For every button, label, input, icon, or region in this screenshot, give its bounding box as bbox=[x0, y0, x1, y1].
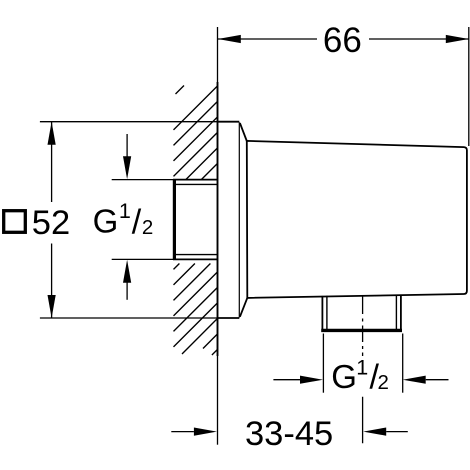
svg-text:33-45: 33-45 bbox=[245, 415, 333, 453]
outlet right outer bbox=[400, 295, 402, 332]
wall section hatch bbox=[174, 86, 218, 356]
outlet bottom edge bbox=[321, 329, 402, 332]
extension line right (66 dim right) bbox=[468, 27, 470, 146]
inlet thread connector top inner bbox=[176, 183, 218, 185]
svg-text:1: 1 bbox=[119, 199, 131, 223]
flange front face edge bbox=[238, 122, 240, 317]
outlet centerline bbox=[362, 296, 364, 443]
outlet left outer bbox=[321, 296, 323, 332]
extension line wall bottom (33-45 dim left) bbox=[217, 356, 219, 445]
inlet thread connector bottom inner bbox=[176, 254, 218, 256]
extension line wall top (66 dim left) bbox=[217, 27, 219, 82]
arrowhead 66 left bbox=[218, 35, 241, 43]
arrow to inlet top bbox=[126, 134, 128, 158]
body outline bbox=[247, 141, 467, 298]
flange outline bbox=[218, 122, 240, 318]
inlet thread extension bottom bbox=[112, 258, 173, 260]
33-45 dim arrow left bbox=[171, 431, 194, 433]
dimension line 52 vertical bbox=[51, 122, 53, 318]
svg-text:1: 1 bbox=[356, 356, 368, 380]
outlet right inner bbox=[395, 295, 397, 330]
svg-text:/: / bbox=[132, 204, 142, 242]
outlet dim arrow right bbox=[426, 379, 449, 381]
33-45 dim arrow right bbox=[386, 431, 408, 433]
inlet thread connector top outer bbox=[173, 179, 218, 181]
square symbol bbox=[4, 211, 26, 233]
outlet left inner bbox=[326, 296, 328, 330]
svg-text:G: G bbox=[331, 358, 357, 395]
extension line flange bottom (52 dim) bbox=[40, 317, 218, 319]
inlet thread connector end edge bbox=[173, 180, 176, 260]
label G 1/2 left bbox=[93, 199, 154, 242]
arrowhead 66 right bbox=[446, 35, 469, 43]
extension line flange top (52 dim) bbox=[40, 121, 218, 123]
arrowhead 52 bottom bbox=[48, 295, 56, 318]
outlet extension line left bbox=[322, 334, 324, 393]
svg-text:2: 2 bbox=[378, 371, 389, 394]
svg-text:G: G bbox=[93, 202, 119, 239]
flange bottom chamfer bbox=[240, 298, 247, 317]
outlet extension line right bbox=[402, 334, 404, 393]
wall face edge line bbox=[217, 82, 219, 356]
inlet thread connector bottom outer bbox=[173, 258, 218, 260]
svg-text:66: 66 bbox=[323, 21, 362, 60]
dimension line 66 bbox=[218, 38, 469, 40]
svg-text:2: 2 bbox=[142, 216, 153, 239]
inlet thread extension top bbox=[112, 179, 173, 181]
arrow to inlet bottom bbox=[126, 282, 128, 300]
outlet dim arrow left bbox=[273, 379, 300, 381]
flange top chamfer bbox=[240, 123, 247, 141]
svg-text:52: 52 bbox=[32, 204, 70, 242]
label G 1/2 bottom bbox=[331, 356, 389, 397]
arrowhead 52 top bbox=[48, 122, 56, 145]
